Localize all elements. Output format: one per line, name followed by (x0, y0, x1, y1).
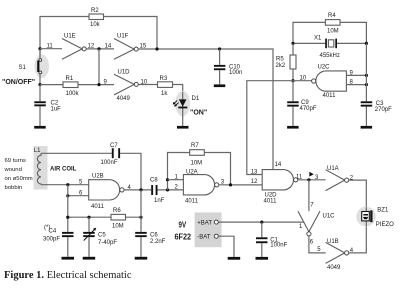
wire pin 9 (346, 74, 366, 76)
node C1 tap (260, 221, 263, 224)
wire U2A output to U2D pin12 (219, 184, 231, 186)
LED D1 (173, 91, 207, 126)
svg-text:L1: L1 (34, 148, 41, 154)
wire top feedback loop S1-top to R2 (40, 17, 89, 61)
svg-text:+BAT: +BAT (197, 220, 212, 226)
node C5 top (87, 216, 90, 219)
wire -BAT to ground (218, 236, 234, 257)
node C10 tap (218, 47, 221, 50)
svg-text:4011: 4011 (91, 204, 105, 210)
svg-text:R3: R3 (160, 76, 168, 82)
wire L1 top to C7 (41, 152, 112, 154)
svg-text:U2C: U2C (318, 65, 331, 71)
svg-text:"ON/OFF": "ON/OFF" (2, 79, 35, 86)
svg-text:11: 11 (296, 175, 303, 181)
wire right rail down to C3 (365, 43, 367, 126)
svg-text:U1D: U1D (118, 70, 131, 76)
wire U1F output to U2D pin14 rail (138, 49, 273, 170)
svg-text:BZ1: BZ1 (377, 207, 389, 213)
bobbin box (34, 146, 48, 190)
resistor R2 (89, 8, 104, 28)
svg-text:AIR COIL: AIR COIL (50, 166, 77, 172)
svg-text:U1A: U1A (327, 166, 339, 172)
svg-text:Figure 1. Electrical schematic: Figure 1. Electrical schematic (4, 270, 132, 281)
svg-text:300pF: 300pF (43, 236, 60, 242)
nand U2B (4011) (89, 174, 124, 210)
inductor L1 (37, 153, 41, 184)
svg-text:2.2nF: 2.2nF (150, 239, 166, 245)
node U1F output / R2 (155, 47, 158, 50)
battery 9V 6F22 (175, 212, 222, 247)
wire R2 right to U1F output rail (104, 17, 158, 50)
node R7 right / U2A out (229, 183, 232, 186)
bus R6 row (68, 216, 141, 218)
resistor R1 (63, 76, 80, 97)
svg-text:S1: S1 (19, 65, 27, 71)
svg-text:R1: R1 (66, 76, 74, 82)
capacitor C9 (287, 81, 317, 126)
wire U1A out to buzzer top (349, 180, 367, 207)
svg-text:R6: R6 (113, 208, 121, 214)
node pin 6 (66, 194, 69, 197)
node pin5/pin6 branch (66, 183, 69, 186)
svg-text:1uF: 1uF (51, 107, 62, 113)
svg-text:U1F: U1F (117, 34, 129, 40)
resistor R6 (111, 208, 126, 229)
node U2B output (139, 188, 142, 191)
wire pin 8 (346, 84, 366, 86)
ground C5 (83, 257, 96, 260)
wire down to C4 (67, 185, 69, 232)
svg-text:U2B: U2B (92, 174, 104, 180)
arrow signal direction (309, 172, 314, 177)
wire oscillator left rail to R4 (293, 22, 325, 43)
svg-text:14: 14 (275, 162, 282, 168)
resistor R7 (168, 143, 231, 190)
op-amp U1C (4049 inverter, pointing down) (298, 211, 335, 236)
ground C3 (361, 126, 373, 129)
node pin 8 (365, 83, 368, 86)
svg-text:1: 1 (299, 224, 303, 230)
svg-text:5: 5 (317, 247, 321, 253)
switch S1 (2, 49, 49, 86)
ground C2 (34, 126, 46, 129)
svg-text:10: 10 (300, 76, 307, 82)
op-amp U1D (4049 inverter) (114, 70, 138, 103)
svg-text:D1: D1 (192, 96, 200, 102)
buzzer BZ1 PIEZO (356, 207, 394, 228)
wire U1C out to U1B in (309, 236, 326, 253)
capacitor C8 (150, 178, 165, 205)
svg-text:R7: R7 (191, 143, 199, 149)
node U1E input / S1 top (38, 47, 41, 50)
wire R4 to right rail (340, 22, 366, 43)
svg-text:U1C: U1C (323, 214, 336, 220)
ground C1 (256, 257, 269, 260)
svg-text:7-40pF: 7-40pF (98, 240, 117, 246)
op-amp U1E (4049 inverter) (62, 34, 86, 60)
wire pin 11 stub (40, 48, 62, 50)
nand U2A (4011) (183, 170, 218, 205)
svg-text:X1: X1 (314, 36, 322, 42)
capacitor C6 (135, 190, 165, 257)
svg-text:R4: R4 (328, 13, 336, 19)
svg-text:100k: 100k (66, 91, 80, 97)
svg-text:6F22: 6F22 (175, 232, 192, 242)
svg-text:PIEZO: PIEZO (376, 222, 394, 228)
svg-text:100nF: 100nF (101, 160, 118, 166)
ground C4 (62, 257, 75, 260)
node R7 left branch (166, 188, 169, 191)
svg-text:wound: wound (4, 167, 22, 173)
svg-text:on ø50mm: on ø50mm (5, 176, 33, 182)
crystal X1 455kHz (293, 36, 366, 60)
svg-text:13: 13 (251, 169, 258, 175)
svg-text:100n: 100n (229, 70, 242, 76)
op-amp U1A (4049 inverter) (326, 166, 349, 191)
svg-text:bobbin: bobbin (5, 185, 23, 191)
capacitor C7 (101, 143, 121, 166)
svg-text:C4: C4 (49, 228, 57, 234)
ground -BAT (228, 257, 241, 260)
svg-text:C5: C5 (98, 233, 106, 239)
op-amp U1F (4049 inverter) (114, 34, 138, 60)
capacitor C10 (214, 49, 242, 84)
svg-text:-BAT: -BAT (197, 234, 211, 240)
capacitor C1 (256, 222, 288, 257)
ground D1 (177, 126, 189, 129)
svg-text:10M: 10M (191, 160, 203, 166)
svg-text:R5: R5 (276, 57, 284, 63)
trimmer C5 (83, 217, 117, 257)
svg-text:69 turns: 69 turns (5, 158, 26, 164)
wire C8 to U2A pin2 (158, 189, 184, 191)
wire pin 7 down to U1C (308, 180, 310, 211)
capacitor C4 (43, 225, 74, 257)
svg-text:12: 12 (251, 179, 258, 185)
node S1 bottom (38, 83, 41, 86)
svg-text:2k2: 2k2 (276, 63, 286, 69)
wire pin12 down to pin9 (98, 49, 100, 85)
resistor R5 (276, 43, 297, 80)
svg-text:9V: 9V (179, 219, 187, 229)
capacitor C3 (361, 101, 392, 113)
svg-text:10M: 10M (327, 29, 339, 35)
svg-text:7: 7 (310, 203, 314, 209)
wire pin 1 (168, 179, 184, 181)
svg-text:C8: C8 (150, 178, 158, 184)
wire +BAT to U1C pin1 (218, 221, 303, 223)
svg-text:4049: 4049 (327, 265, 341, 271)
node U1A/U1C branch (307, 178, 310, 181)
wire U1E out to U1F in (86, 48, 114, 50)
wire U2D output (298, 179, 326, 181)
coil note text (4, 158, 33, 191)
node C6 top (139, 216, 142, 219)
svg-text:1k: 1k (161, 91, 168, 97)
svg-text:455kHz: 455kHz (320, 53, 340, 59)
svg-text:U2A: U2A (186, 170, 198, 176)
svg-text:4049: 4049 (117, 96, 131, 102)
wire C7 to U2B output rail (120, 153, 141, 190)
wire pin 6 (68, 195, 89, 197)
wire U2C out to U2D pin13 (247, 81, 293, 175)
svg-text:R2: R2 (91, 8, 99, 14)
nand U2C (4011, mirrored) (312, 65, 347, 99)
node pin 9 (97, 83, 100, 86)
wire U2A out to U2D pin12 (231, 184, 263, 186)
nand U2D (4011) (262, 170, 298, 205)
svg-text:"ON": "ON" (190, 110, 207, 117)
svg-text:10k: 10k (90, 22, 101, 28)
svg-text:4011: 4011 (323, 93, 337, 99)
svg-text:U1B: U1B (327, 239, 339, 245)
node X1 right (365, 42, 368, 45)
node U2A pin1 (166, 178, 169, 181)
wire R3 to D1 (173, 85, 183, 93)
svg-text:470pF: 470pF (300, 106, 317, 112)
wire U2B out to C8 (124, 189, 151, 191)
wire U1D out to R3 (138, 84, 157, 86)
wire U2C output stub (293, 80, 312, 82)
ground C6 (135, 257, 148, 260)
svg-text:1nF: 1nF (154, 198, 165, 204)
svg-text:C7: C7 (110, 143, 118, 149)
node pin12/pin9 branch (97, 47, 100, 50)
wire S1 to R1 (40, 84, 63, 86)
svg-text:10M: 10M (112, 223, 124, 229)
wire L1 bottom to U2B pin5 (41, 184, 89, 186)
svg-text:270pF: 270pF (375, 107, 392, 113)
op-amp U1B (4049 inverter) (326, 239, 349, 271)
svg-text:C6: C6 (150, 233, 158, 239)
node C4 top (66, 216, 69, 219)
node U2C output (291, 79, 294, 82)
svg-text:100nF: 100nF (270, 243, 287, 249)
node X1 left (291, 42, 294, 45)
ground C9 (287, 126, 299, 129)
resistor R4 (325, 13, 340, 35)
svg-text:11: 11 (47, 44, 54, 50)
svg-text:4011: 4011 (264, 199, 278, 205)
svg-text:U1E: U1E (64, 34, 76, 40)
resistor R3 (158, 76, 173, 97)
ground C10 (214, 84, 226, 87)
svg-text:4011: 4011 (185, 199, 199, 205)
node pin 9 (365, 74, 368, 77)
wire U1B out to buzzer bottom (349, 226, 367, 253)
svg-text:14: 14 (105, 44, 112, 50)
capacitor C2 (34, 85, 61, 126)
wire R1 to U1D input (78, 84, 114, 86)
svg-text:6: 6 (310, 240, 314, 246)
